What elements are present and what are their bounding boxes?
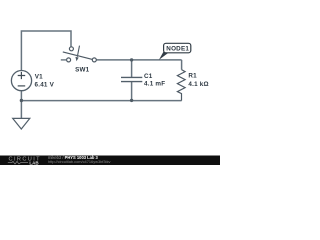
switch SW1: [67, 47, 97, 62]
wire capacitor bottom lead: [131, 82, 133, 101]
V1 minus sign: [18, 85, 26, 87]
wire below V1 to bottom rail: [20, 91, 22, 101]
svg-text:LAB: LAB: [29, 160, 39, 165]
resistor R1: [177, 70, 185, 101]
wire bottom rail: [21, 100, 181, 102]
wire mid rail from switch to right corner: [96, 59, 181, 61]
SW1 actuator arrow: [77, 46, 79, 57]
wire top-left L from V1 up and right to switch: [21, 31, 71, 71]
SW1 throw contact top: [69, 47, 73, 51]
node NODE1 callout box: [164, 43, 191, 53]
V1 plus sign: [18, 72, 26, 79]
svg-text:R1: R1: [188, 72, 197, 79]
svg-text:4.1 mF: 4.1 mF: [144, 80, 165, 87]
footer bar: [0, 156, 220, 166]
junction dot capacitor bottom: [130, 99, 133, 102]
SW1 lever: [63, 52, 93, 60]
wire ground stem: [20, 101, 22, 119]
svg-text:SW1: SW1: [75, 67, 90, 74]
svg-text:V1: V1: [35, 74, 43, 81]
svg-text:NODE1: NODE1: [166, 46, 189, 53]
SW1 left stub wire: [61, 59, 67, 61]
node NODE1 callout pointer: [159, 51, 169, 60]
SW1 throw contact left: [67, 58, 71, 62]
wire right branch down to resistor: [181, 60, 183, 70]
svg-text:4.1 kΩ: 4.1 kΩ: [188, 81, 208, 88]
junction dot capacitor top: [130, 58, 133, 61]
SW1 common contact right: [92, 58, 96, 62]
ground: [13, 118, 30, 129]
voltage source V1: [11, 71, 31, 91]
junction dot V1 bottom: [20, 99, 23, 102]
CircuitLab logo resistor squiggle: [8, 161, 28, 164]
svg-text:http://circuitlab.com/c4716yw3: http://circuitlab.com/c4716yw3bf3tkv: [48, 159, 111, 164]
svg-text:6.41 V: 6.41 V: [35, 81, 55, 88]
svg-text:C1: C1: [144, 73, 153, 80]
wire capacitor top lead: [131, 60, 133, 78]
capacitor C1: [121, 77, 142, 81]
